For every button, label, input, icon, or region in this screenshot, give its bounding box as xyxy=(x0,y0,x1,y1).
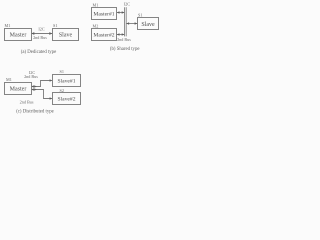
caption (b) xyxy=(110,47,140,52)
bus vertical pair (b) xyxy=(125,7,127,36)
block Master (a) xyxy=(5,29,32,41)
svg-text:I2C: I2C xyxy=(124,1,130,6)
svg-text:S1: S1 xyxy=(138,12,142,17)
label M2 (b) xyxy=(93,23,99,28)
svg-text:(a) Dedicated type: (a) Dedicated type xyxy=(21,50,56,55)
wire Master#2-bus (b) xyxy=(117,33,124,36)
wire Master-Slave (a) xyxy=(31,32,52,35)
svg-text:Master#2: Master#2 xyxy=(93,33,114,39)
wire bus-Slave (b) xyxy=(126,22,137,25)
block Master (c) xyxy=(5,83,32,95)
svg-text:Master#1: Master#1 xyxy=(93,12,114,18)
net label I2C (a) xyxy=(38,26,44,31)
caption (a) xyxy=(21,50,56,55)
svg-text:I2C: I2C xyxy=(38,26,44,31)
block Slave#2 (c) xyxy=(53,93,81,105)
svg-text:Slave#2: Slave#2 xyxy=(57,97,75,103)
label M1 (a) xyxy=(5,23,11,28)
svg-text:2nd Bus: 2nd Bus xyxy=(20,100,34,105)
svg-text:Slave: Slave xyxy=(59,33,73,39)
label M1 (b) xyxy=(93,2,99,7)
svg-text:M1: M1 xyxy=(5,23,11,28)
svg-text:2nd Bus: 2nd Bus xyxy=(33,35,47,40)
caption (c) xyxy=(16,110,54,115)
net label I2C (c) xyxy=(29,70,35,75)
svg-text:M1: M1 xyxy=(93,2,99,7)
svg-text:S1: S1 xyxy=(53,23,57,28)
wire Master#1-bus (b) xyxy=(117,11,124,14)
svg-text:(b) Shared type: (b) Shared type xyxy=(110,47,140,52)
block Slave (a) xyxy=(53,29,79,41)
block Master#2 (b) xyxy=(92,29,117,41)
svg-text:M1: M1 xyxy=(6,77,12,82)
wire Master-Slave#1 (c) xyxy=(31,79,52,88)
svg-text:M2: M2 xyxy=(93,23,99,28)
label S2 (c) xyxy=(60,88,64,93)
wire Master-Slave#2 (c) xyxy=(31,88,52,100)
svg-text:(c) Distributed type: (c) Distributed type xyxy=(16,110,54,115)
block Master#1 (b) xyxy=(92,8,117,20)
svg-text:2nd Bus: 2nd Bus xyxy=(24,74,38,79)
svg-text:Slave: Slave xyxy=(141,22,155,28)
net label 2nd Bus upper (c) xyxy=(24,74,38,79)
svg-text:Master: Master xyxy=(10,87,27,93)
label S1 (c) xyxy=(60,69,64,74)
label M1 (c) xyxy=(6,77,12,82)
svg-text:Slave#1: Slave#1 xyxy=(57,79,75,85)
svg-text:Master: Master xyxy=(10,33,27,39)
block Slave#1 (c) xyxy=(53,75,81,87)
net label 2nd Bus (a) xyxy=(33,35,47,40)
svg-text:S1: S1 xyxy=(60,69,64,74)
svg-text:2nd Bus: 2nd Bus xyxy=(117,37,131,42)
block Slave (b) xyxy=(138,18,159,30)
label S1 (a) xyxy=(53,23,57,28)
net label I2C (b) xyxy=(124,1,130,6)
label S1 (b) xyxy=(138,12,142,17)
net label 2nd Bus (c) xyxy=(20,100,34,105)
net label 2nd Bus (b) xyxy=(117,37,131,42)
